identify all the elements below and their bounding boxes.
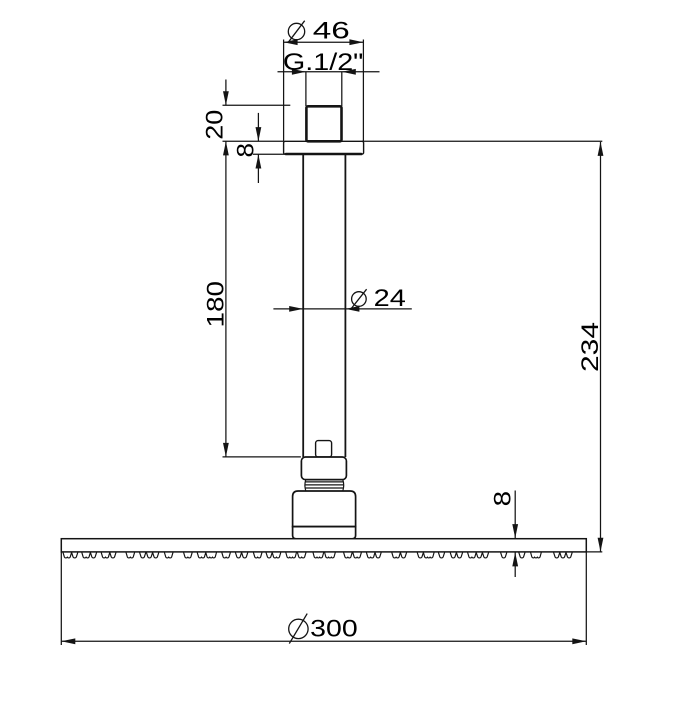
dim 20 upper arrow line	[223, 80, 229, 106]
svg-text:24: 24	[374, 285, 406, 312]
dim Ø46 dimension line	[284, 41, 364, 43]
dim Ø24 arrow left	[289, 306, 303, 312]
mounting plate	[284, 141, 364, 154]
label Ø300 symbol	[289, 614, 308, 644]
label Ø24 symbol	[351, 289, 366, 308]
dim 20/180 shared vertical dimension line	[225, 141, 227, 457]
label 20 text	[202, 110, 229, 140]
dim Ø46 extension line left	[283, 40, 285, 142]
svg-text:20: 20	[202, 110, 229, 140]
dim G.1/2 dimension line	[278, 71, 380, 73]
dim 234 bottom extension line	[586, 551, 602, 553]
dim 8 plate upper arrow line	[256, 113, 262, 141]
dim Ø24 dimension line	[273, 308, 411, 310]
ceiling fitting G1/2 thread	[306, 106, 341, 141]
dim Ø300 extension line left	[60, 552, 62, 645]
nozzle row	[63, 552, 572, 558]
hub body	[293, 491, 356, 527]
dim Ø300 dimension line	[61, 640, 586, 642]
threaded neck	[305, 480, 344, 491]
svg-text:G.1/2": G.1/2"	[283, 49, 364, 76]
label 180 text	[203, 281, 230, 328]
dim Ø46 extension line right	[362, 40, 364, 142]
shower arm pipe wall right	[344, 154, 346, 457]
dim Ø46 arrow left	[284, 39, 298, 45]
label Ø46 text	[313, 18, 350, 45]
dim 180 bottom extension line	[223, 456, 301, 458]
hub band	[293, 527, 356, 539]
dim 8 head lower arrow line	[512, 552, 518, 577]
dim Ø300 extension line right	[585, 552, 587, 645]
dim 20 top extension line	[223, 104, 291, 106]
dim 180 bottom arrow	[223, 443, 229, 457]
label G.1/2 text	[283, 49, 364, 76]
svg-text:46: 46	[313, 18, 350, 45]
label Ø46 symbol	[288, 21, 304, 43]
svg-text:8: 8	[490, 491, 517, 507]
dim 20 lower arrow	[223, 141, 229, 155]
dim G.1/2 extension line right	[341, 72, 343, 106]
dim 8 head upper arrow line	[512, 491, 518, 539]
label Ø300 text	[310, 616, 358, 643]
dim Ø46 arrow right	[349, 39, 363, 45]
dim G.1/2 arrow right	[342, 69, 356, 75]
dim 234 bottom arrow	[598, 538, 604, 552]
dim Ø24 arrow right	[345, 306, 359, 312]
dim 20 bottom extension line	[223, 140, 284, 142]
connector nut	[301, 457, 346, 480]
dim 8 plate extension line	[253, 153, 303, 155]
dim 8 plate lower arrow line	[256, 155, 262, 184]
dim 234 top arrow	[598, 142, 604, 156]
label Ø24 text	[374, 285, 406, 312]
label 8 head text	[490, 491, 517, 507]
label 234 text	[577, 322, 604, 372]
dim Ø300 arrow right	[572, 638, 586, 644]
svg-text:234: 234	[577, 322, 604, 372]
label 8 plate text	[233, 143, 260, 158]
retainer notch at pipe bottom	[316, 441, 332, 457]
dim Ø300 arrow left	[61, 638, 75, 644]
dim 234 dimension line	[600, 142, 602, 552]
svg-text:8: 8	[233, 143, 260, 158]
dim 234 top extension line	[362, 140, 602, 142]
svg-text:300: 300	[310, 616, 358, 643]
dim G.1/2 extension line left	[305, 72, 307, 106]
shower head disc	[61, 539, 586, 552]
svg-text:180: 180	[203, 281, 230, 328]
shower arm pipe wall left	[302, 154, 304, 457]
dim G.1/2 arrow left	[292, 69, 306, 75]
